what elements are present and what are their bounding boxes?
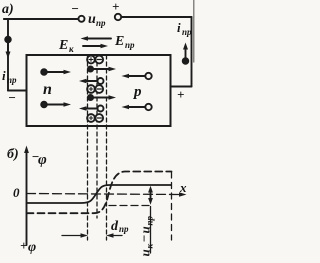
label i_pr right	[177, 20, 192, 37]
junction dashed line middle	[96, 55, 98, 218]
solid potential curve	[27, 185, 172, 203]
svg-text:+: +	[112, 0, 119, 14]
svg-text:E: E	[58, 38, 68, 53]
label u_k - u_pr rotated	[137, 215, 155, 256]
svg-text:d: d	[111, 219, 119, 234]
svg-text:u: u	[88, 12, 96, 27]
wire top-left	[4, 18, 79, 20]
svg-text:−: −	[137, 235, 152, 243]
junction dashed line right	[106, 55, 108, 240]
svg-text:φ: φ	[28, 240, 36, 255]
wire left stub	[8, 90, 27, 92]
svg-text:пр: пр	[145, 215, 155, 225]
svg-text:p: p	[132, 84, 142, 100]
svg-text:n: n	[43, 81, 52, 98]
x axis dashed	[27, 192, 187, 196]
terminal minus	[79, 16, 85, 22]
ion pair row 2	[87, 85, 103, 93]
label d_pr	[111, 219, 129, 234]
wire right vertical	[191, 17, 193, 87]
label +phi	[20, 238, 36, 255]
hole p-region 1	[122, 73, 152, 79]
hole crossing 2	[79, 106, 104, 112]
label E_pr	[114, 34, 135, 50]
terminal plus	[115, 14, 121, 20]
d_pr measure left arrow	[62, 233, 88, 237]
dashed extension line u level	[109, 205, 151, 207]
current arrow right (i_pr up)	[183, 43, 189, 64]
svg-text:−: −	[8, 90, 16, 105]
svg-text:i: i	[177, 20, 181, 35]
svg-text:E: E	[114, 34, 124, 49]
phi axis	[24, 146, 29, 246]
svg-text:−: −	[71, 1, 79, 16]
svg-text:пр: пр	[125, 40, 135, 50]
label u_pr	[88, 12, 106, 28]
electron crossing 2	[88, 95, 116, 100]
svg-text:пр: пр	[7, 75, 17, 85]
semiconductor box	[27, 55, 171, 126]
label i_pr left	[2, 68, 17, 85]
double arrow u_k - u_pr	[148, 186, 153, 205]
label E_k	[58, 38, 74, 54]
hole p-region 2	[122, 104, 152, 110]
hole crossing 1	[79, 78, 104, 84]
svg-text:u: u	[138, 226, 153, 233]
current arrow left (i_pr down)	[5, 37, 11, 59]
vertical dashed line right	[171, 172, 173, 240]
svg-text:пр: пр	[96, 18, 106, 28]
svg-text:+: +	[20, 238, 27, 253]
svg-text:0: 0	[13, 185, 20, 200]
label -phi	[32, 149, 48, 168]
svg-text:а): а)	[2, 2, 14, 17]
electron n-region 1	[41, 69, 71, 75]
d_pr measure right arrow	[106, 233, 122, 237]
leader line below arrow	[150, 207, 152, 254]
wire right stub	[171, 86, 192, 88]
wire top-right	[121, 16, 191, 18]
electron n-region 2	[41, 102, 71, 108]
svg-text:u: u	[138, 249, 153, 256]
junction dashed line left	[87, 55, 89, 240]
ion pair row 1	[87, 56, 103, 64]
svg-text:i: i	[2, 68, 6, 83]
ion pair row 3	[87, 114, 103, 122]
arrow E_pr (left)	[81, 36, 112, 40]
scan artifact right edge	[193, 0, 195, 62]
svg-text:к: к	[69, 44, 74, 54]
svg-text:к: к	[145, 244, 155, 249]
dashed potential curve	[27, 172, 172, 214]
svg-text:+: +	[177, 87, 184, 102]
svg-text:φ: φ	[38, 152, 47, 168]
svg-text:пр: пр	[119, 224, 129, 234]
arrow E_k (right)	[83, 44, 108, 48]
svg-text:пр: пр	[182, 27, 192, 37]
svg-text:x: x	[179, 180, 187, 195]
electron crossing 1	[88, 66, 116, 71]
wire left vertical	[4, 19, 8, 91]
svg-text:б): б)	[7, 147, 19, 162]
